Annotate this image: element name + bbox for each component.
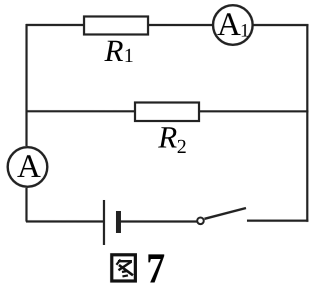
wire: left vertical, ammeter A to bottom corner: [25, 188, 27, 222]
wire: top-left horizontal to resistor R1: [26, 24, 84, 26]
wire: bottom left, corner to battery: [26, 220, 103, 222]
wire: middle branch left, junction to resistor R2: [26, 110, 135, 112]
wire: ammeter A1 to top-right corner: [253, 24, 308, 26]
ammeter A1: [213, 5, 253, 45]
svg-text:1: 1: [240, 21, 250, 42]
svg-text:7: 7: [146, 245, 165, 286]
battery: short thick plate: [116, 211, 121, 233]
wire: resistor R2 to right vertical: [199, 110, 308, 112]
caption: character 图: [112, 255, 136, 281]
ammeter A: [8, 147, 48, 187]
wire: resistor R1 to ammeter A1: [148, 24, 212, 26]
svg-text:2: 2: [177, 136, 187, 158]
svg-text:R: R: [104, 33, 124, 68]
battery: long plate: [103, 200, 105, 245]
wire: battery to switch: [121, 220, 197, 222]
resistor R1: [84, 16, 148, 34]
svg-text:A: A: [217, 7, 241, 43]
svg-text:1: 1: [124, 45, 134, 67]
switch lever: [204, 208, 246, 219]
switch pivot: [197, 218, 204, 225]
wire: right vertical: [306, 24, 308, 222]
wire: left vertical, top corner to ammeter A: [25, 24, 27, 146]
label R2: [157, 120, 187, 159]
wire: switch to bottom-right corner: [247, 220, 308, 222]
svg-text:R: R: [157, 120, 177, 155]
resistor R2: [135, 102, 199, 121]
label R1: [104, 33, 134, 68]
svg-text:A: A: [17, 149, 41, 185]
